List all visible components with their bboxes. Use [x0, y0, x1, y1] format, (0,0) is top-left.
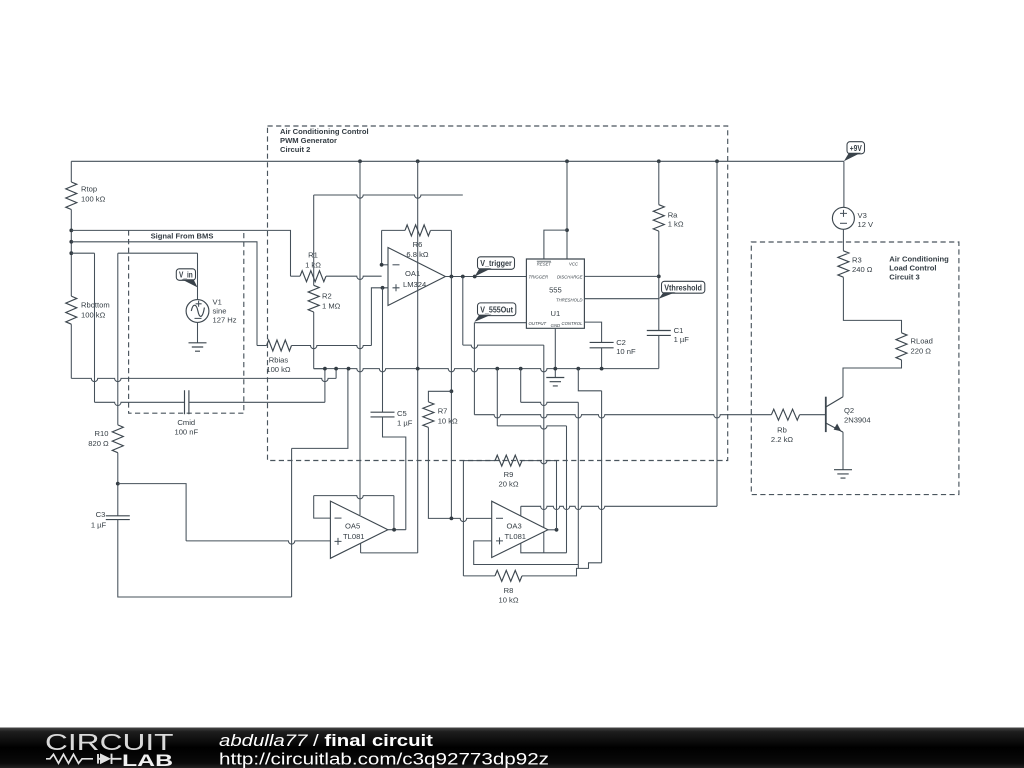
svg-text:240 Ω: 240 Ω [852, 265, 873, 274]
svg-text:TL081: TL081 [505, 532, 527, 541]
op-amp OA5 TL081 follower [314, 496, 331, 518]
svg-text:1 MΩ: 1 MΩ [322, 302, 341, 311]
svg-text:V1: V1 [213, 298, 222, 307]
svg-text:OA3: OA3 [507, 522, 522, 531]
svg-text:Air Conditioning Control: Air Conditioning Control [280, 127, 369, 136]
svg-text:10 nF: 10 nF [616, 347, 636, 356]
node +9V flag [847, 142, 865, 154]
svg-text:R2: R2 [322, 292, 332, 301]
wire gnd staircase S1 to OA3 vminus loop [496, 369, 498, 426]
wire OA5 vplus x=360 from rail [359, 161, 361, 515]
svg-text:V_555Out: V_555Out [480, 305, 513, 314]
svg-text:TRIGGER: TRIGGER [529, 275, 549, 280]
svg-text:1 kΩ: 1 kΩ [305, 261, 321, 270]
wire R9 left to R8 left [462, 461, 464, 576]
wire OA1 out down to OA3 minus [450, 277, 452, 519]
svg-text:V_in: V_in [179, 271, 193, 280]
wire 555 GND pin [554, 328, 556, 377]
resistor R1 1k [300, 271, 326, 282]
wire OA1 output to 555 TRIGGER [445, 276, 526, 278]
wire base drive line to Rb [474, 415, 771, 418]
wire OA5 output [388, 529, 406, 531]
svg-text:R1: R1 [308, 251, 318, 260]
svg-text:Ra: Ra [668, 211, 678, 220]
svg-text:100 kΩ: 100 kΩ [81, 195, 106, 204]
svg-text:Load Control: Load Control [889, 264, 936, 273]
wire THRESHOLD to C1 [584, 298, 658, 300]
capacitor C1 1uF [647, 331, 671, 336]
svg-text:OUTPUT: OUTPUT [529, 321, 547, 326]
wire divider node to R1 [71, 230, 290, 276]
op-amp OA3 TL081 [492, 501, 548, 557]
svg-text:R8: R8 [504, 586, 514, 595]
resistor R2 1M [308, 285, 319, 312]
dashed box: Air Conditioning Control PWM Generator Circuit 2 [268, 126, 728, 461]
wire V1 minus to ground [197, 322, 199, 342]
wire mid ground rail [314, 369, 659, 372]
svg-text:VCC: VCC [569, 262, 579, 267]
svg-text:abdulla77 / final circuit: abdulla77 / final circuit [219, 732, 434, 750]
svg-text:1 µF: 1 µF [91, 520, 107, 529]
wire C3 bottom return loop [118, 520, 292, 597]
wire x=417 rail to OA5 vminus [417, 161, 419, 553]
resistor R7 10k [428, 391, 451, 402]
svg-text:Q2: Q2 [844, 406, 854, 415]
svg-text:Air Conditioning: Air Conditioning [889, 255, 949, 264]
wire OA3 output to R9 [548, 529, 557, 531]
svg-text:LAB: LAB [122, 751, 173, 768]
svg-text:THRESHOLD: THRESHOLD [556, 297, 583, 302]
svg-text:+9V: +9V [850, 144, 863, 153]
ground below V1 [189, 343, 207, 351]
svg-text:Cmid: Cmid [177, 418, 195, 427]
wire gnd staircase S3 [578, 369, 601, 391]
svg-text:Circuit 2: Circuit 2 [280, 145, 310, 154]
resistor Ra 1k [658, 161, 660, 204]
voltage source V3 12V [843, 161, 845, 207]
wire DISCHARGE to Ra [584, 275, 658, 277]
svg-text:1 µF: 1 µF [397, 418, 413, 427]
svg-text:R9: R9 [504, 470, 514, 479]
svg-text:20 kΩ: 20 kΩ [498, 480, 518, 489]
node Vthreshold flag [662, 281, 705, 293]
node V_555Out flag [478, 303, 516, 316]
wire OA3 minus input [451, 518, 491, 521]
wire OA1 out to OA3 power feed [462, 277, 464, 346]
wire divider node to Cmid [71, 252, 94, 254]
svg-text:R3: R3 [852, 256, 862, 265]
svg-text:Rtop: Rtop [81, 185, 97, 194]
wire OA3 vminus stub [543, 532, 545, 553]
svg-text:100 nF: 100 nF [174, 427, 198, 436]
svg-text:U1: U1 [551, 309, 561, 318]
transistor Q2 2N3904 [825, 397, 827, 432]
svg-text:C2: C2 [616, 338, 626, 347]
resistor Rbias 100k [267, 340, 292, 351]
svg-text:2.2 kΩ: 2.2 kΩ [771, 435, 793, 444]
resistor R9 20k [463, 460, 495, 462]
svg-text:OA5: OA5 [345, 522, 360, 531]
resistor Rtop 100k [70, 161, 72, 182]
svg-text:Rbias: Rbias [269, 356, 289, 365]
wire R10 to C3 node [117, 453, 119, 516]
ground below Q2 [834, 470, 852, 478]
svg-text:127 Hz: 127 Hz [213, 316, 237, 325]
svg-text:C3: C3 [96, 510, 106, 519]
resistor R8 10k [495, 570, 522, 581]
svg-text:10 kΩ: 10 kΩ [498, 596, 518, 605]
resistor Rbottom 100k [66, 296, 77, 324]
dashed box: Air Conditioning Load Control Circuit 3 [751, 242, 959, 495]
wire 555 output down to base line [473, 323, 475, 415]
wire OA1 plus node down to C5 [382, 288, 384, 412]
capacitor C2 10nF [590, 342, 614, 347]
svg-text:1 kΩ: 1 kΩ [668, 220, 684, 229]
resistor R3 240 [838, 251, 849, 277]
svg-text:Rb: Rb [777, 426, 787, 435]
svg-text:1 µF: 1 µF [674, 335, 690, 344]
svg-text:Circuit 3: Circuit 3 [889, 273, 919, 282]
svg-text:C1: C1 [674, 326, 684, 335]
svg-text:Signal From BMS: Signal From BMS [151, 232, 214, 241]
wire V1 to R10 feed [118, 252, 198, 254]
svg-text:DISCHARGE: DISCHARGE [557, 275, 583, 280]
svg-text:2N3904: 2N3904 [844, 416, 871, 425]
svg-text:PWM Generator: PWM Generator [280, 136, 337, 145]
svg-text:R10: R10 [95, 429, 109, 438]
svg-text:100 kΩ: 100 kΩ [81, 311, 106, 320]
wire gnd staircase S2 [520, 369, 522, 403]
capacitor C5 1uF [371, 412, 395, 417]
wire Q2 emitter to ground [842, 432, 844, 470]
wire +9V top rail [71, 160, 844, 162]
wire 555 OUTPUT to V_555Out corner [474, 322, 526, 324]
wire CONTROL to C2 [584, 322, 601, 342]
op-amp OA1 LM324 [382, 264, 388, 266]
wire OA3 plus input to gnd net [474, 541, 579, 565]
svg-text:100 kΩ: 100 kΩ [266, 365, 291, 374]
svg-text:12 V: 12 V [858, 220, 875, 229]
wire R1R2 node to OA1 output rail [314, 195, 463, 198]
ground below 555 [546, 378, 564, 386]
resistor R10 820 [112, 425, 123, 453]
IC U1 555 timer [526, 259, 584, 328]
svg-text:CONTROL: CONTROL [561, 321, 583, 326]
svg-text:V3: V3 [858, 211, 867, 220]
svg-text:Rbottom: Rbottom [81, 301, 110, 310]
wire +9V feed to op-amp rails [521, 506, 717, 509]
svg-text:820 Ω: 820 Ω [88, 439, 109, 448]
resistor RLoad 220 [896, 333, 907, 360]
wire Rbias to OA1 plus input [371, 288, 388, 346]
svg-text:10 kΩ: 10 kΩ [438, 416, 458, 425]
svg-text:V_trigger: V_trigger [480, 259, 512, 268]
svg-text:http://circuitlab.com/c3q92773: http://circuitlab.com/c3q92773dp92z [219, 751, 549, 768]
wire OA5 vminus stub [360, 543, 362, 553]
wire divider node to Rbias [71, 242, 257, 346]
svg-text:GND: GND [551, 323, 561, 328]
svg-text:555: 555 [549, 286, 562, 295]
svg-text:sine: sine [213, 307, 227, 316]
wire Rbottom bottom to mid node [70, 324, 72, 378]
capacitor Cmid 100nF [95, 402, 185, 405]
svg-text:R7: R7 [438, 407, 448, 416]
svg-text:Vthreshold: Vthreshold [664, 283, 702, 292]
svg-text:LM324: LM324 [403, 280, 426, 289]
svg-text:C5: C5 [397, 409, 407, 418]
resistor Rb 2.2k [771, 409, 799, 420]
voltage source V1 sine 127 Hz [186, 300, 209, 323]
svg-text:220 Ω: 220 Ω [911, 346, 932, 355]
wire C5 bottom to OA5 output [383, 417, 406, 530]
wire VCC/RESET feed from rail [566, 161, 568, 259]
svg-text:RLoad: RLoad [911, 337, 933, 346]
resistor R6 6.8k feedback [405, 225, 430, 236]
dashed box: Signal From BMS [129, 230, 244, 413]
svg-text:RESET: RESET [537, 262, 552, 267]
node V_in flag [176, 269, 195, 281]
capacitor C3 1uF [106, 516, 130, 520]
node V_trigger flag [478, 257, 515, 270]
wire C3 node to OA5 plus input [118, 484, 186, 541]
svg-text:TL081: TL081 [343, 532, 365, 541]
